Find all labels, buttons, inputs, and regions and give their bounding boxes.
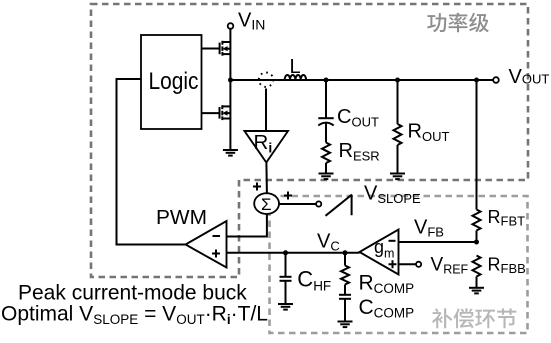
ground under ROUT: [390, 174, 405, 180]
plus sign PWM: [212, 250, 220, 258]
gm error amplifier: [360, 230, 399, 275]
node COUT branch: [324, 78, 329, 83]
capacitor COUT: [318, 117, 333, 119]
wire gm plus to VREF terminal: [399, 263, 417, 265]
wire Q2 drain-source vertical: [229, 80, 231, 150]
resistor RFBT: [473, 210, 481, 231]
resistor RFBB: [473, 256, 481, 277]
wire CHF to ground: [285, 281, 287, 304]
wire Ri to summer: [265, 163, 268, 194]
wire PWM output to logic: [117, 79, 186, 245]
terminal VOUT: [493, 77, 499, 83]
logic block: [141, 35, 202, 129]
svg-text:Σ: Σ: [261, 195, 272, 214]
wire CCOMP to ground: [344, 299, 346, 322]
current sense amp Ri: [245, 131, 289, 163]
wire RFBT to FB node: [476, 231, 478, 243]
resistor RESR: [322, 143, 330, 164]
summer sigma: [254, 193, 279, 214]
node ROUT branch: [395, 78, 400, 83]
wire VC node to CHF: [285, 253, 287, 277]
plus sign right input of summer: [284, 192, 292, 200]
slope ramp symbol: [326, 195, 353, 216]
wire VC node to RCOMP: [344, 253, 346, 266]
wire Q1 drain-source vertical: [229, 29, 231, 80]
node RCOMP branch: [343, 250, 348, 255]
node FB: [474, 240, 479, 245]
svg-text:Logic: Logic: [149, 68, 199, 95]
plus sign gm: [389, 260, 397, 268]
resistor ROUT: [394, 124, 402, 145]
compensation dashed boundary box: [270, 196, 528, 333]
wire to ROUT: [397, 80, 399, 124]
minus sign gm: [389, 240, 396, 242]
capacitor CHF: [280, 277, 292, 281]
capacitor CCOMP: [339, 295, 351, 299]
wire RESR to ground: [325, 163, 327, 174]
wire COUT to RESR: [325, 124, 327, 143]
wire ROUT to ground: [397, 145, 399, 174]
minus sign PWM: [213, 235, 221, 237]
wire logic to Q2 gate: [202, 112, 220, 114]
svg-text:PWM: PWM: [156, 206, 207, 229]
plus sign top input of summer: [253, 183, 261, 191]
wire VFB to gm minus input: [399, 241, 477, 243]
wire RFBB to ground: [476, 277, 478, 288]
terminal VIN: [228, 23, 234, 29]
transistor Q1 high-side MOSFET: [220, 41, 231, 56]
svg-text:L: L: [290, 56, 301, 78]
PWM comparator: [186, 221, 227, 268]
ground under Q2: [223, 150, 238, 156]
terminal VREF: [416, 262, 421, 267]
terminal slope switch: [316, 201, 321, 206]
node SW switch node: [228, 78, 233, 83]
power stage dashed boundary box: [91, 4, 528, 277]
ground under RESR: [319, 174, 334, 180]
wire summer output to PWM minus input: [227, 214, 267, 237]
resistor RCOMP: [341, 266, 349, 285]
transistor Q2 low-side MOSFET: [220, 105, 231, 120]
wire summer right input to slope terminal: [279, 203, 316, 205]
current sense dotted circle: [259, 73, 273, 87]
node CHF branch: [283, 250, 288, 255]
inductor L: [285, 75, 306, 80]
wire logic to Q1 gate: [202, 48, 220, 50]
label 功率级 (power stage): [427, 13, 489, 33]
wire to RFBT: [476, 80, 478, 210]
wire output rail: [231, 79, 494, 81]
node feedback branch: [474, 78, 479, 83]
svg-text:Peak current-mode buck: Peak current-mode buck: [18, 282, 247, 305]
ground under RFBB: [469, 288, 484, 294]
ground under CHF: [278, 304, 293, 310]
label 补偿环节 (compensation): [432, 308, 516, 328]
wire VC from PWM plus to gm output: [227, 252, 360, 254]
wire to COUT: [325, 80, 327, 118]
ground under CCOMP: [338, 322, 353, 328]
wire sense point to Ri amp: [265, 89, 267, 132]
wire RCOMP to CCOMP: [344, 285, 346, 295]
